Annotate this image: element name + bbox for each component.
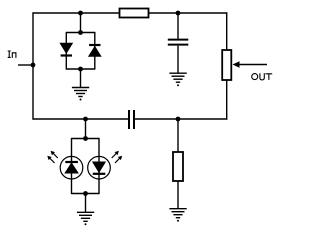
wire R2 upper stub <box>177 119 179 152</box>
wire top rail right segment <box>149 12 228 14</box>
wire LED box left branch <box>71 138 73 194</box>
wire input lead <box>18 64 33 66</box>
wiper arrow of VR1 <box>233 61 268 68</box>
wire middle rail left segment <box>33 118 129 120</box>
diode D1 <box>60 43 72 55</box>
resistor R2 <box>173 152 183 181</box>
wire diode box bottom <box>66 68 95 70</box>
wire LED box top <box>72 138 100 140</box>
potentiometer VR1 <box>222 50 231 80</box>
wire top rail left segment <box>33 12 120 14</box>
LED LED1 <box>60 156 83 179</box>
wire diode box left branch <box>65 32 67 70</box>
node resistor R2 top <box>176 117 181 122</box>
wire C1 upper stub <box>177 13 179 39</box>
wire R2 lower stub <box>177 181 179 209</box>
light arrows of LED1 <box>47 151 58 163</box>
ground under LEDs <box>77 212 94 225</box>
node LED branch top <box>83 117 88 122</box>
label In <box>8 51 16 58</box>
LED LED2 <box>88 156 111 179</box>
ground under diodes <box>72 88 89 101</box>
light arrows of LED2 <box>112 151 123 163</box>
node LED box bottom <box>83 191 88 196</box>
node diode branch top <box>78 11 83 16</box>
wire LED ground stub <box>85 194 87 213</box>
resistor R1 <box>120 9 149 18</box>
wire diode branch stub <box>80 13 82 33</box>
wire C1 lower stub <box>177 46 179 73</box>
capacitor C1 <box>168 40 189 45</box>
wire diode box right branch <box>94 32 96 70</box>
wire diode ground stub <box>80 69 82 88</box>
node capacitor C1 top <box>176 11 181 16</box>
ground under R2 <box>169 209 186 222</box>
label OUT <box>252 73 273 80</box>
ground under C1 <box>169 73 186 86</box>
wire left rail <box>32 12 34 119</box>
node diode box top <box>78 30 83 35</box>
wire right rail upper <box>226 12 228 50</box>
wire right rail lower <box>226 80 228 120</box>
diode D2 <box>89 45 101 56</box>
node diode box bottom <box>78 67 83 72</box>
capacitor C2 <box>129 110 134 129</box>
wire LED branch stub <box>85 119 87 139</box>
node In junction <box>31 63 36 68</box>
wire diode box top <box>66 32 95 34</box>
wire LED box right branch <box>98 138 100 194</box>
node LED box top <box>83 136 88 141</box>
wire LED box bottom <box>72 193 100 195</box>
wire middle rail right segment <box>135 118 227 120</box>
